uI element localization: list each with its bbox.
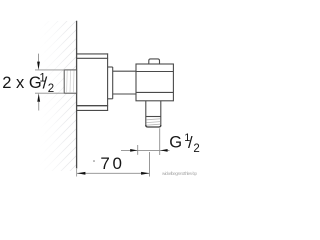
escutcheon front face (107, 53, 109, 111)
G1/2 dim left arrow (130, 149, 137, 152)
svg-text:2 x G: 2 x G (2, 74, 41, 92)
wall stub rect (64, 70, 76, 93)
svg-text:2: 2 (193, 143, 199, 155)
top bump (149, 59, 160, 64)
body groove upper (136, 71, 173, 73)
70 dim left arrow (77, 172, 85, 175)
svg-text:wickelbegrenzthles-bp: wickelbegrenzthles-bp (162, 171, 197, 176)
wall face line (76, 21, 78, 169)
left dim extension top (35, 69, 64, 71)
svg-text:2: 2 (48, 83, 54, 95)
G1/2 dim line (121, 149, 170, 151)
body rectangle (136, 64, 173, 101)
left dim bottom arrow (38, 102, 40, 111)
left dim top arrow (38, 54, 40, 62)
G1/2 dim ext left (137, 145, 139, 155)
svg-text:/: / (188, 134, 193, 152)
stub thread lines (66, 71, 69, 93)
outlet thread lines (147, 119, 161, 120)
svg-text:G: G (169, 133, 182, 151)
union flange (112, 67, 114, 99)
70 dim line (77, 172, 150, 174)
left dim extension bottom (35, 92, 64, 94)
G1/2 dim right arrow (160, 149, 167, 152)
outlet sides (145, 101, 147, 127)
neck bottom (113, 93, 136, 95)
escutcheon top edge lines (77, 53, 109, 55)
outlet step line (146, 116, 161, 118)
70 dim right extension (149, 152, 151, 177)
escutcheon bottom edge lines (77, 105, 109, 107)
speck (93, 160, 95, 162)
70 dim wall extension (76, 169, 78, 177)
wall hatch (30, 10, 77, 175)
svg-text:70: 70 (100, 154, 124, 173)
G1/2 dim ext right (159, 128, 161, 155)
70 dim right arrow (141, 172, 149, 175)
outlet bottom (146, 125, 161, 127)
neck top (113, 70, 136, 72)
body groove lower (136, 91, 173, 93)
